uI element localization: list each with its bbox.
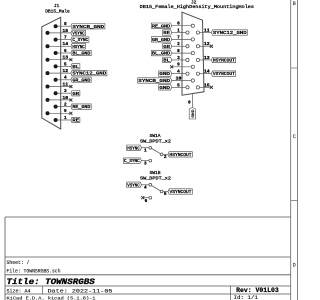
svg-text:C: C bbox=[293, 134, 296, 140]
svg-text:File: TOWNSRGBS.sch: File: TOWNSRGBS.sch bbox=[7, 269, 61, 275]
svg-text:HSYNCOUT: HSYNCOUT bbox=[213, 59, 235, 64]
J2 pin 13 bbox=[196, 56, 211, 62]
J1 pin 14 bbox=[46, 42, 71, 48]
svg-text:3: 3 bbox=[144, 161, 147, 166]
svg-text:Rev: V01L03: Rev: V01L03 bbox=[236, 287, 279, 294]
svg-text:8: 8 bbox=[64, 22, 67, 27]
J1 pin 8 bbox=[54, 22, 71, 28]
global label HSYNC (SW1A pin 1) bbox=[127, 145, 142, 151]
J2 pin 12 bbox=[196, 42, 213, 48]
svg-text:GR_GND: GR_GND bbox=[72, 78, 90, 83]
SW1A lever (pin 2 to pin 1) bbox=[152, 148, 161, 153]
svg-text:BL: BL bbox=[163, 59, 170, 64]
svg-text:6: 6 bbox=[177, 22, 180, 27]
svg-text:HSYNC: HSYNC bbox=[72, 45, 85, 50]
connector J2 body bbox=[182, 12, 204, 95]
svg-text:D: D bbox=[293, 262, 296, 268]
svg-text:15: 15 bbox=[62, 29, 68, 34]
J2 pin 5 bbox=[172, 83, 189, 89]
SW1A pin 3 (throw) bbox=[141, 159, 151, 166]
svg-text:2: 2 bbox=[64, 103, 67, 108]
svg-text:VSYNCOUT: VSYNCOUT bbox=[170, 190, 192, 195]
J1 pin 5 bbox=[54, 62, 71, 68]
global label BL_GND (J2 pin 8) bbox=[151, 50, 171, 56]
global label VSYNCOUT (J2 pin 14) bbox=[211, 71, 235, 77]
svg-text:J1: J1 bbox=[54, 3, 60, 9]
svg-text:VSYNC: VSYNC bbox=[72, 31, 85, 36]
svg-text:SW1B: SW1B bbox=[149, 170, 160, 176]
J1 pin 7 bbox=[54, 36, 71, 42]
global label VSYNC (SW1B pin 4) bbox=[127, 182, 142, 188]
svg-text:RE_GND: RE_GND bbox=[72, 105, 90, 110]
svg-text:RE: RE bbox=[163, 31, 170, 36]
svg-text:5: 5 bbox=[164, 192, 167, 197]
svg-text:GND: GND bbox=[159, 72, 170, 77]
J1 pin 11 bbox=[46, 82, 73, 88]
svg-text:4: 4 bbox=[64, 76, 67, 81]
svg-text:B: B bbox=[293, 1, 296, 7]
title block outline bbox=[5, 217, 291, 300]
svg-text:12: 12 bbox=[62, 69, 68, 74]
global label HSYNCOUT (J2 pin 13) bbox=[211, 57, 235, 63]
J2 pin 0 (shield) bbox=[188, 94, 192, 107]
svg-text:10: 10 bbox=[62, 96, 68, 101]
svg-text:13: 13 bbox=[62, 56, 68, 61]
svg-text:VSYNCOUT: VSYNCOUT bbox=[213, 72, 235, 77]
svg-text:GND: GND bbox=[192, 109, 196, 118]
svg-text:11: 11 bbox=[62, 82, 68, 87]
J1 pin 4 bbox=[54, 76, 71, 82]
svg-text:12: 12 bbox=[204, 42, 210, 47]
svg-text:Sheet: /: Sheet: / bbox=[7, 260, 30, 266]
J1 pin 1 bbox=[54, 116, 71, 122]
sheet border outer line bbox=[297, 0, 299, 300]
J1 pin 9 bbox=[46, 109, 73, 115]
svg-text:GR: GR bbox=[72, 92, 79, 97]
J2 pin 15 bbox=[196, 83, 213, 89]
J1 pin 15 bbox=[46, 29, 71, 35]
svg-text:6: 6 bbox=[64, 49, 67, 54]
svg-text:HSYNC: HSYNC bbox=[127, 146, 140, 151]
SW1B pin 6 (throw, no connect) bbox=[141, 196, 151, 204]
svg-text:VSYNC: VSYNC bbox=[127, 183, 140, 188]
J2 pin 1 bbox=[172, 28, 189, 34]
svg-text:BL: BL bbox=[72, 65, 79, 70]
global label HSYNC (J1 pin 14) bbox=[71, 44, 86, 50]
SW1B lever (pin 5 to pin 4) bbox=[152, 186, 161, 191]
J2 pin 4 bbox=[172, 70, 189, 76]
svg-text:SYNCB_GND: SYNCB_GND bbox=[72, 25, 104, 30]
global label SYNC12_GND (J1 pin 12) bbox=[71, 70, 107, 76]
global label VSYNCOUT (SW1B pin 5) bbox=[168, 189, 192, 195]
J2 pin 10 bbox=[172, 76, 195, 82]
global label BL (J1 pin 5) bbox=[71, 64, 80, 70]
svg-text:7: 7 bbox=[177, 35, 180, 40]
global label SYNC12_GND (J2 pin 11) bbox=[211, 30, 247, 36]
svg-text:2: 2 bbox=[177, 42, 180, 47]
global label GND (J2 pin 5) bbox=[159, 85, 172, 91]
svg-text:13: 13 bbox=[204, 56, 210, 61]
global label RE_GND (J2 pin 6) bbox=[151, 23, 171, 29]
global label GND (J2 pin 0, vertical) bbox=[189, 107, 196, 119]
J2 pin 6 bbox=[172, 22, 195, 28]
svg-text:BL_GND: BL_GND bbox=[152, 52, 170, 57]
svg-text:6: 6 bbox=[145, 199, 148, 204]
global label GR (J1 pin 3) bbox=[71, 91, 80, 97]
svg-text:10: 10 bbox=[176, 76, 182, 81]
SW1A pin 2 (common) bbox=[160, 153, 168, 160]
svg-text:2: 2 bbox=[164, 155, 167, 160]
svg-text:15: 15 bbox=[204, 83, 210, 88]
svg-text:3: 3 bbox=[64, 89, 67, 94]
global label VSYNC (J1 pin 15) bbox=[71, 30, 86, 36]
svg-text:14: 14 bbox=[204, 70, 210, 75]
svg-text:9: 9 bbox=[177, 63, 180, 68]
global label RE (J1 pin 1) bbox=[71, 117, 80, 123]
svg-text:7: 7 bbox=[64, 36, 67, 41]
svg-text:1: 1 bbox=[177, 28, 180, 33]
J2 pin 7 bbox=[172, 35, 195, 41]
svg-text:SW_DPDT_x2: SW_DPDT_x2 bbox=[140, 138, 171, 144]
svg-text:SYNCB_GND: SYNCB_GND bbox=[138, 79, 170, 84]
global label BL_GND (J1 pin 6) bbox=[71, 50, 91, 56]
global label SYNCB_GND (J2 pin 10) bbox=[138, 78, 172, 84]
svg-text:4: 4 bbox=[177, 70, 180, 75]
svg-text:Id: 1/1: Id: 1/1 bbox=[234, 295, 259, 300]
svg-text:1: 1 bbox=[64, 116, 67, 121]
svg-text:Date: 2022-11-05: Date: 2022-11-05 bbox=[48, 288, 113, 294]
global label GND (J2 pin 4) bbox=[159, 71, 172, 77]
border row tick C/D bbox=[291, 200, 298, 202]
SW1B pin 4 (throw) bbox=[141, 183, 151, 190]
svg-text:SYNC12_GND: SYNC12_GND bbox=[72, 72, 106, 77]
svg-text:3: 3 bbox=[177, 56, 180, 61]
svg-text:RE: RE bbox=[72, 119, 79, 124]
svg-text:SYNC12_GND: SYNC12_GND bbox=[213, 31, 247, 36]
svg-text:4: 4 bbox=[144, 186, 147, 191]
svg-text:11: 11 bbox=[204, 28, 210, 33]
svg-text:5: 5 bbox=[177, 83, 180, 88]
svg-text:SW_DPDT_x2: SW_DPDT_x2 bbox=[140, 176, 171, 182]
global label C_SYNC (J1 pin 7) bbox=[71, 37, 89, 43]
svg-text:C_SYNC: C_SYNC bbox=[124, 159, 140, 164]
global label GR_GND (J1 pin 4) bbox=[71, 77, 91, 83]
global label GR_GND (J2 pin 7) bbox=[151, 37, 171, 43]
SW1B pin 5 (common) bbox=[160, 190, 168, 197]
J2 pin 14 bbox=[196, 70, 211, 76]
svg-text:1: 1 bbox=[144, 148, 147, 153]
svg-text:GR: GR bbox=[163, 45, 170, 50]
svg-text:HSYNCOUT: HSYNCOUT bbox=[170, 153, 192, 158]
svg-text:9: 9 bbox=[64, 109, 67, 114]
J1 pin 6 bbox=[54, 49, 71, 55]
global label RE_GND (J1 pin 2) bbox=[71, 104, 91, 110]
svg-text:KiCad E.D.A. kicad (5.1.8)-1: KiCad E.D.A. kicad (5.1.8)-1 bbox=[7, 295, 96, 300]
global label BL (J2 pin 3) bbox=[163, 57, 172, 63]
svg-text:RE_GND: RE_GND bbox=[152, 24, 170, 29]
J2 pin 9 bbox=[170, 63, 194, 69]
J2 pin 3 bbox=[172, 56, 189, 62]
svg-text:0: 0 bbox=[188, 100, 191, 105]
svg-text:GR_GND: GR_GND bbox=[152, 38, 170, 43]
svg-text:GND: GND bbox=[159, 86, 170, 91]
svg-text:Size: A4: Size: A4 bbox=[7, 288, 31, 294]
svg-text:BL_GND: BL_GND bbox=[72, 52, 90, 57]
sheet border inner line bbox=[290, 0, 292, 300]
svg-text:DB15_Male: DB15_Male bbox=[45, 8, 70, 14]
svg-text:8: 8 bbox=[177, 49, 180, 54]
global label C_SYNC (SW1A pin 3) bbox=[123, 158, 141, 164]
svg-text:5: 5 bbox=[64, 62, 67, 67]
SW1A pin 1 (throw) bbox=[141, 146, 151, 153]
border row tick B/C bbox=[291, 67, 298, 69]
J1 pin 2 bbox=[54, 103, 71, 109]
J1 pin 13 bbox=[46, 56, 73, 62]
J2 pin 2 bbox=[172, 42, 189, 48]
global label GR (J2 pin 2) bbox=[163, 44, 172, 50]
global label RE (J2 pin 1) bbox=[163, 30, 172, 36]
connector J1 body bbox=[42, 17, 61, 129]
J2 pin 11 bbox=[196, 28, 211, 34]
svg-text:14: 14 bbox=[62, 42, 68, 47]
svg-text:DB15_Female_HighDensity_Mounti: DB15_Female_HighDensity_MountingHoles bbox=[140, 4, 255, 10]
svg-text:SW1A: SW1A bbox=[149, 133, 160, 139]
J1 pin 10 bbox=[46, 96, 73, 102]
J2 pin 8 bbox=[172, 49, 195, 55]
J1 pin 3 bbox=[54, 89, 71, 95]
global label HSYNCOUT (SW1A pin 2) bbox=[168, 152, 192, 158]
J1 pin 12 bbox=[46, 69, 71, 75]
global label SYNCB_GND (J1 pin 8) bbox=[71, 24, 105, 30]
svg-text:C_SYNC: C_SYNC bbox=[72, 38, 88, 43]
svg-text:Title: TOWNSRGBS: Title: TOWNSRGBS bbox=[7, 279, 96, 287]
